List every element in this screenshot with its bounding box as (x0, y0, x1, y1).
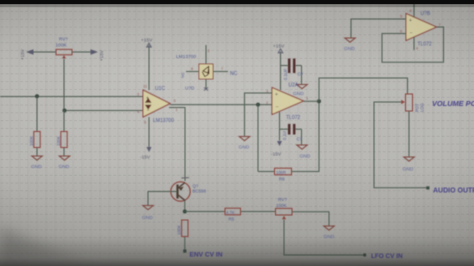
ground below volume pot (403, 157, 415, 173)
volume pot POT LOG (401, 94, 424, 112)
ground for C? (bottom) (297, 145, 311, 160)
wire R5 to RV? (241, 211, 276, 213)
junction B (63, 109, 67, 113)
wire Q? collector down (184, 201, 186, 212)
-15V power flag below U1C (140, 117, 152, 161)
wire volume pot to ground (408, 111, 410, 157)
wire RV? wiper to LFO CV IN (284, 220, 364, 255)
wire node to R5 (185, 211, 225, 213)
+15V power flag above U1C (141, 38, 153, 91)
ground at RV? (324, 226, 335, 240)
resistor vertical below Q? node (177, 220, 189, 237)
junction collector node (183, 210, 187, 214)
junction A (35, 94, 39, 98)
feedback wire U2A pin2 down (257, 105, 259, 172)
ground below R2 (31, 156, 42, 170)
wire U2A output to volume pot (319, 78, 408, 101)
+15V power flag above U2A (273, 44, 285, 91)
power flag left of top pot (20, 48, 56, 60)
wire U1C output to U2A pin 2 (170, 104, 272, 106)
ground for C? (top) (293, 85, 307, 98)
ground at Q? base (142, 206, 153, 222)
ENV CV IN net flag (183, 250, 223, 259)
wire R8 to output riser (292, 101, 320, 171)
ground below R3 (59, 156, 70, 170)
wire U?B pin5 to ground (351, 19, 406, 38)
junction U2A output (317, 99, 321, 103)
wire resistor R3 to ground (63, 148, 65, 157)
AUDIO OUTPUT net flag (426, 186, 474, 194)
op-amp U1C OTA LM13700 (137, 85, 178, 125)
buffer U?D LM13700 (unused section) (176, 45, 238, 91)
wire junction B down (63, 110, 65, 132)
wire volume pot wiper to audio out (374, 102, 427, 188)
wire U2A pin3 to ground (245, 93, 273, 137)
wire to R8 (258, 171, 274, 173)
ground at U2A pin3 (239, 137, 250, 151)
power flag +15V right of top pot (72, 49, 104, 61)
wire RV? right terminal to ground (292, 212, 329, 226)
wire input A (0, 96, 143, 98)
wire U1C Iabc pin to Q1 emitter (169, 108, 185, 182)
potentiometer RV? 100K (bottom) (276, 197, 293, 219)
op-amp U?B TL072 (unused) (400, 2, 441, 51)
wire Q? base to ground (148, 192, 177, 206)
resistor R8 feedback (275, 168, 292, 181)
wire junction A down (36, 97, 38, 132)
potentiometer RV? 100K (top left) (56, 37, 73, 59)
-15V power flag below U2A (271, 112, 282, 158)
capacitor C? 0.1UF (V+ decoupling) (281, 59, 304, 85)
ground at U?B pin5 (344, 38, 355, 52)
transistor Q? BC558 (170, 178, 206, 202)
resistor R5 4.7K (225, 208, 241, 221)
wire input B (64, 110, 143, 112)
capacitor C? 0.1UF (V- decoupling) (280, 124, 303, 145)
resistor R3 vertical (56, 132, 67, 148)
wire to ENV CV IN (184, 237, 186, 252)
wire U2A output (304, 100, 320, 102)
wire U?B feedback loop (382, 27, 444, 62)
resistor R2 vertical (29, 132, 40, 148)
LFO CV IN net flag (363, 253, 403, 260)
wire pot wiper down (63, 59, 65, 110)
junction U1C output feedback (256, 103, 260, 107)
wire resistor R2 to ground (36, 148, 38, 157)
op-amp U2A TL072 (266, 83, 308, 121)
